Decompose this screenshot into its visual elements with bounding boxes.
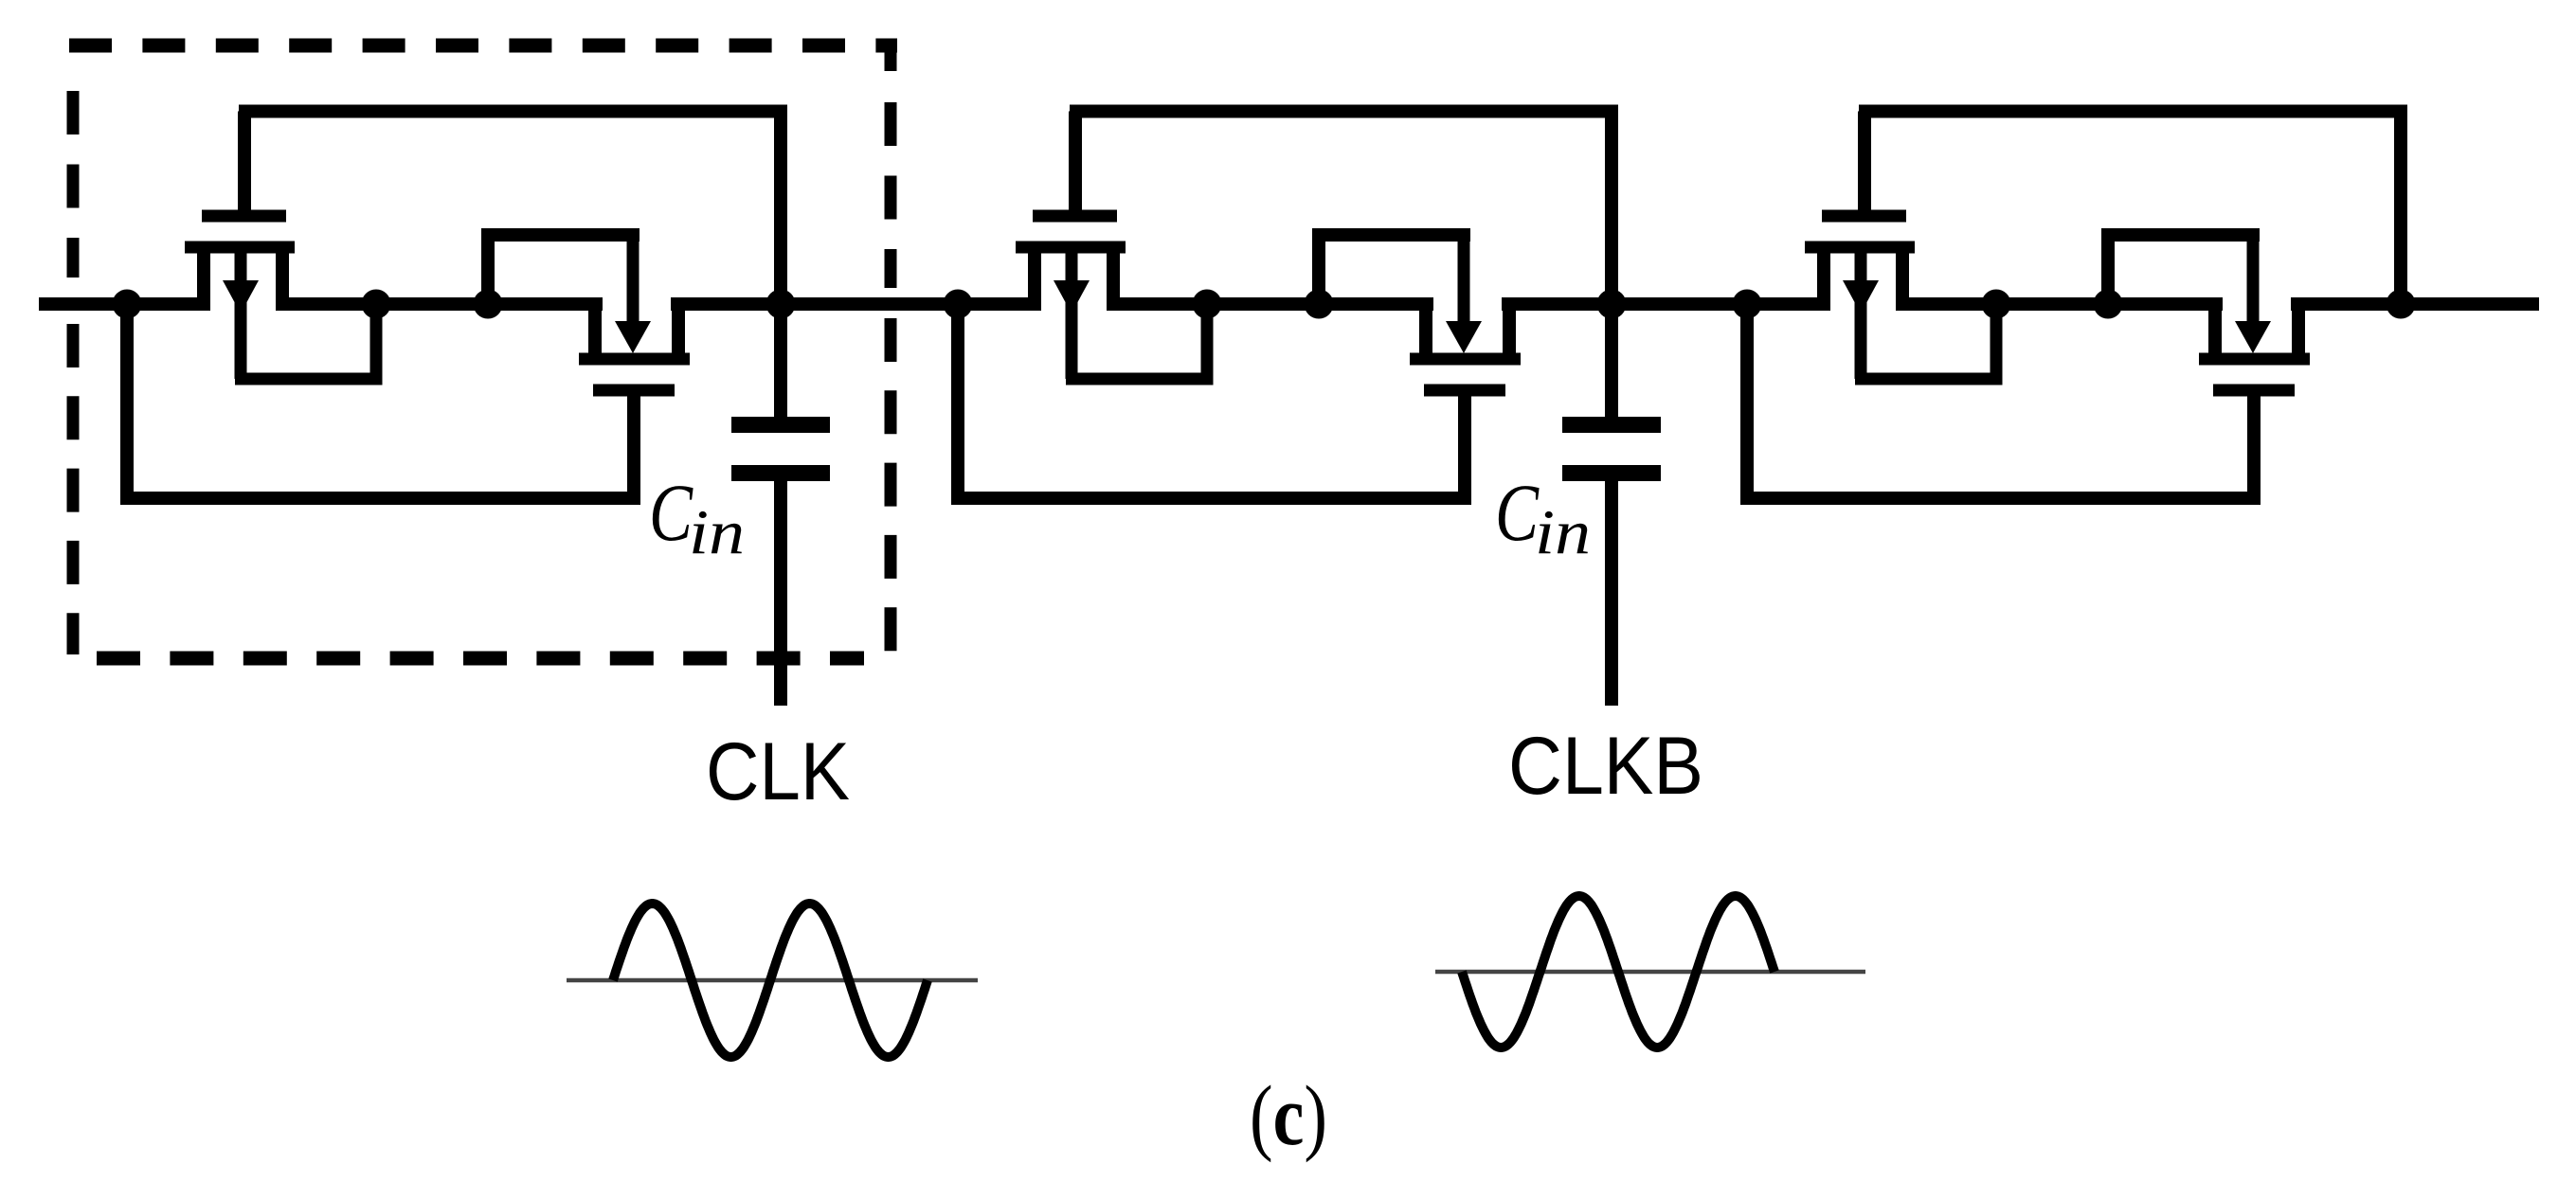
- node N1a: stage 1 input junction: [113, 290, 142, 319]
- wire: main rail segment 3: [671, 297, 1041, 311]
- wire: stage 1 C1 bottom lead to clock terminal: [774, 481, 787, 706]
- capacitor C2: stage 2 coupling capacitor C_in: [1562, 425, 1661, 474]
- node: stage 2 Q3 bulk tie junction on rail: [1193, 290, 1222, 319]
- svg-text:in: in: [1535, 497, 1591, 567]
- dashed box: unit-cell outline top edge: [69, 39, 897, 53]
- node N2a: stage 2 input junction: [944, 290, 973, 319]
- dashed box: unit-cell outline bottom edge: [97, 652, 864, 666]
- transistor Q5: stage 3 series diode-connected MOSFET (arrow = bulk tie): [1805, 112, 1996, 385]
- waveform: CLK sine (positive phase): [613, 904, 928, 1057]
- node: stage 1 Q1 bulk tie junction on rail: [362, 290, 391, 319]
- wire: stage 3 bottom gate-return rail: [1740, 492, 2261, 505]
- wire: CLKB waveform zero axis: [1435, 970, 1865, 975]
- wire: main rail segment 7: [2291, 297, 2539, 311]
- wire: main rail segment 1: [39, 297, 210, 311]
- transistor Q4: stage 2 mirrored diode-connected MOSFET (gate to input node): [1312, 228, 1521, 498]
- wire: stage 3 vertical from feedback wire down to output node: [2394, 112, 2407, 305]
- node: stage 3 Q6 bulk loop junction on rail: [2094, 290, 2123, 319]
- wire: stage 2 top feedback (Q3 gate to output node): [1070, 105, 1618, 118]
- wire: stage 1 input node drop to gate-return rail: [120, 304, 134, 498]
- wire: main rail segment 2: [276, 297, 603, 311]
- node N3b: stage 3 output junction on rail: [2387, 290, 2416, 319]
- wire: main rail segment 6: [1896, 297, 2223, 311]
- transistor Q3: stage 2 series diode-connected MOSFET (arrow = bulk tie): [1016, 112, 1207, 385]
- svg-text:CLK: CLK: [706, 726, 850, 817]
- capacitor C1: stage 1 coupling capacitor C_in: [731, 425, 830, 474]
- svg-text:in: in: [689, 497, 745, 567]
- wire: main rail segment 4: [1107, 297, 1433, 311]
- wire: stage 3 input node drop to gate-return rail: [1740, 304, 1754, 498]
- wire: stage 2 input node drop to gate-return rail: [951, 304, 964, 498]
- svg-text:(c): (c): [1250, 1069, 1327, 1163]
- waveform: CLKB sine (negative phase): [1462, 896, 1774, 1048]
- wire: stage 2 bottom gate-return rail: [951, 492, 1471, 505]
- dashed box: unit-cell outline right edge lower part: [885, 318, 897, 652]
- wire: main rail segment 5: [1502, 297, 1830, 311]
- dashed box: unit-cell outline left edge upper part: [67, 91, 80, 278]
- wire: stage 1 top feedback (Q1 gate to output node): [239, 105, 787, 118]
- wire: stage 3 top feedback (Q5 gate to output node): [1859, 105, 2407, 118]
- wire: stage 2 vertical from feedback wire down to C2 top plate: [1605, 112, 1618, 422]
- node N2b: stage 2 output junction on rail: [1597, 290, 1627, 319]
- node N1b: stage 1 output junction on rail: [766, 290, 796, 319]
- node: stage 3 Q5 bulk tie junction on rail: [1982, 290, 2011, 319]
- svg-text:CLKB: CLKB: [1508, 721, 1703, 812]
- transistor Q2: stage 1 mirrored diode-connected MOSFET (gate to input node): [481, 228, 690, 498]
- transistor Q1: stage 1 series diode-connected MOSFET (arrow = bulk tie): [185, 112, 376, 385]
- dashed box: unit-cell outline right edge upper part: [885, 102, 897, 288]
- node: stage 1 Q2 bulk loop junction on rail: [474, 290, 503, 319]
- wire: stage 2 C2 bottom lead to clock terminal: [1605, 481, 1618, 706]
- dashed box: unit-cell outline right top corner stub: [885, 42, 897, 71]
- node N3a: stage 3 input junction: [1733, 290, 1762, 319]
- node: stage 2 Q4 bulk loop junction on rail: [1305, 290, 1334, 319]
- dashed box: unit-cell outline left edge lower part: [67, 324, 80, 654]
- svg-text:C: C: [649, 467, 694, 558]
- transistor Q6: stage 3 mirrored diode-connected MOSFET (gate to input node): [2101, 228, 2310, 498]
- wire: CLK waveform zero axis: [567, 978, 978, 983]
- wire: stage 1 vertical from feedback wire down to C1 top plate: [774, 112, 787, 422]
- svg-text:C: C: [1495, 467, 1540, 558]
- wire: stage 1 bottom gate-return rail: [120, 492, 640, 505]
